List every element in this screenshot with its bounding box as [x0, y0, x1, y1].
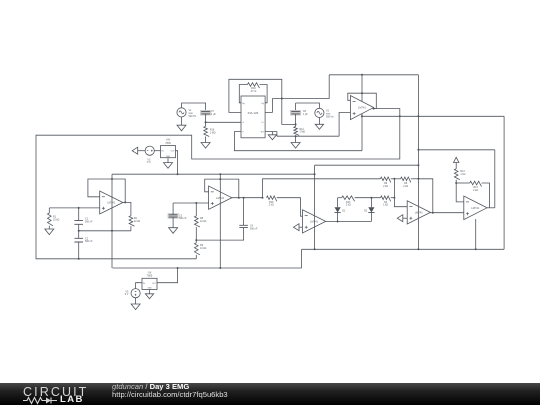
- junction U3 output: [373, 108, 375, 110]
- wire D2 top lead: [370, 198, 372, 208]
- junction line116-U3out drop: [399, 115, 401, 117]
- svg-text:500 nF: 500 nF: [85, 220, 93, 223]
- wire R2b right: [391, 197, 395, 199]
- wire R9b-R6 gap: [391, 178, 401, 180]
- wire R1 bottom: [48, 226, 50, 229]
- svg-text:500 nF: 500 nF: [85, 240, 93, 243]
- resistor R6 (2k): [401, 177, 411, 182]
- svg-text:1 MΩ: 1 MΩ: [210, 131, 216, 134]
- svg-text:7805: 7805: [147, 275, 153, 278]
- resistor R10 (47 Ohm) gain loop: [248, 83, 260, 88]
- svg-text:INA 126: INA 126: [248, 111, 259, 115]
- svg-text:10 kΩ: 10 kΩ: [200, 247, 207, 250]
- wire INA Ref pin stub: [265, 132, 277, 137]
- wire INA right mid pin up: [265, 99, 272, 113]
- junction D2 top: [370, 197, 372, 199]
- port arrow P1: [132, 147, 138, 154]
- svg-text:LM741: LM741: [107, 201, 115, 205]
- ground below X1: [164, 163, 173, 169]
- wire X1 GND down: [167, 158, 169, 163]
- resistor R2b (1k): [381, 196, 391, 201]
- junction C1 top: [78, 207, 80, 209]
- wire U5 feedback: [418, 179, 432, 213]
- junction rail-U6 Vminus: [475, 248, 477, 250]
- svg-text:2 kΩ: 2 kΩ: [473, 189, 478, 192]
- wire net y=98.5 to U3 rail: [272, 75, 329, 99]
- junction rail-U4 Vminus: [314, 248, 316, 250]
- wire R12 bottom: [295, 135, 297, 142]
- svg-text:Ref: Ref: [261, 132, 265, 134]
- svg-text:LM741: LM741: [358, 106, 366, 110]
- svg-text:10 kΩ: 10 kΩ: [200, 220, 207, 223]
- port arrow P2: [294, 224, 300, 231]
- junction U1 feedback crossing: [111, 178, 113, 180]
- port arrow P3: [397, 215, 403, 222]
- junction R6-x418: [417, 178, 419, 180]
- op-amp U3 LM741: [350, 96, 373, 120]
- wire R13a-D2 top: [355, 197, 381, 199]
- wire top rail y=74.8: [329, 74, 418, 76]
- wire V3 to X1 IN: [154, 150, 160, 152]
- capacitor C2 (500nF): [74, 238, 83, 242]
- wire C1 top: [78, 208, 80, 221]
- wire U6 Vminus stub: [475, 219, 477, 249]
- diode D2: [368, 207, 374, 212]
- svg-text:47 Ω: 47 Ω: [251, 89, 257, 93]
- wire R6 right: [411, 178, 419, 180]
- svg-text:500 nF: 500 nF: [250, 227, 258, 230]
- svg-text:Rg: Rg: [242, 103, 244, 105]
- wire R1 top: [48, 208, 50, 213]
- wire net W2 mid rail y=174.2: [112, 173, 315, 175]
- resistor R9b (2k) top row: [380, 177, 390, 182]
- ground below R12: [291, 143, 300, 149]
- op-amp U4 LM741: [303, 210, 326, 233]
- junction U2out-fb: [238, 197, 240, 199]
- wire R13b left lead: [456, 182, 470, 184]
- wire D1 top: [337, 198, 339, 208]
- wire rail y=165.2: [315, 164, 419, 166]
- junction C4-U2out: [243, 197, 245, 199]
- wire net W1 (opamp U3 output to left rail): [36, 109, 400, 259]
- junction U5out-fb: [432, 212, 434, 214]
- voltage source V5 9V: [131, 289, 140, 298]
- svg-text:2 kΩ: 2 kΩ: [403, 185, 408, 188]
- wire R9 bottom: [195, 255, 197, 259]
- svg-text:GND: GND: [166, 156, 171, 158]
- junction D1 bottom: [337, 221, 339, 223]
- junction U2 feedback crossing: [219, 178, 221, 180]
- wire U1 plus input: [49, 207, 99, 209]
- op-amp U5 LM741: [407, 201, 430, 224]
- ground below C3: [169, 228, 178, 234]
- wire R8 bottom: [195, 227, 197, 243]
- junction rail-x418: [417, 248, 419, 250]
- resistor R13b (2k): [470, 181, 482, 186]
- wire rail149 drop to U6 out: [494, 150, 496, 208]
- ground below R1: [45, 229, 54, 235]
- wire C3 top: [172, 203, 174, 215]
- wire R10 loop right: [260, 85, 268, 103]
- capacitor C8 (1uF): [290, 110, 301, 116]
- wire R16 bottom: [205, 137, 207, 143]
- wire V2 top to C8 top: [296, 103, 320, 108]
- instrumentation amp U7 INA126 box: [241, 96, 265, 138]
- svg-text:LM741: LM741: [415, 211, 423, 215]
- junction x362 line116: [361, 115, 363, 117]
- svg-text:1 μF: 1 μF: [303, 113, 308, 116]
- resistor R1 (22k): [48, 213, 53, 226]
- resistor R16b (2k): [267, 196, 277, 201]
- ground below X2: [145, 294, 153, 299]
- wire VCC stem: [455, 163, 457, 169]
- wire C8 bottom to R12: [295, 114, 297, 127]
- wire C7 bottom node: [205, 114, 207, 126]
- junction R2b-vert: [393, 197, 395, 199]
- svg-text:D2: D2: [364, 210, 368, 213]
- wire P2 to U4 plus: [299, 226, 303, 228]
- wire INA left guard: [229, 79, 296, 124]
- ground below INA Ref: [271, 132, 273, 135]
- wire mid node line y=230.8: [79, 230, 131, 232]
- voltage source V3 9V: [145, 146, 154, 155]
- svg-text:500 Hz: 500 Hz: [189, 115, 197, 118]
- op-amp U2 LM741: [209, 186, 232, 209]
- svg-text:9 V: 9 V: [125, 293, 129, 296]
- wire D1 bottom lead: [337, 213, 339, 222]
- wire U2 output: [231, 197, 263, 199]
- wire V5 to X2 IN: [136, 283, 142, 289]
- junction x418-rail149: [417, 149, 419, 151]
- junction W2-U2 stub: [219, 173, 221, 175]
- wire bottom rail step: [301, 249, 303, 268]
- wire R2 bottom: [130, 226, 132, 231]
- wire R8R9 to C4: [196, 228, 243, 241]
- resistor R9 (10k): [195, 243, 200, 255]
- voltage source V1 sine: [177, 108, 186, 117]
- svg-text:GND: GND: [147, 288, 152, 290]
- wire U5 supply vertical: [417, 75, 419, 250]
- resistor R8 (10k): [195, 216, 200, 227]
- wire P1 to V3: [138, 150, 145, 152]
- wire U6 output: [487, 207, 495, 209]
- svg-text:22 kΩ: 22 kΩ: [53, 218, 60, 221]
- wire U3 supply vertical x=362: [361, 75, 363, 151]
- wire R8 top: [195, 203, 197, 216]
- wire U1 supply vertical: [111, 174, 113, 268]
- wire X1 OUT to W2: [176, 151, 178, 175]
- wire net W3 (INA bottom to U3 supply): [234, 132, 362, 151]
- wire C1 bottom: [78, 224, 80, 231]
- ground below R16: [201, 143, 210, 149]
- svg-text:1 μF: 1 μF: [211, 113, 216, 116]
- wire V1 bottom: [181, 117, 183, 125]
- wire U2out riser to top row: [263, 179, 381, 198]
- junction U2 plus-R8: [195, 202, 197, 204]
- wire U4 supply vertical: [314, 165, 316, 249]
- junction C2-rail: [78, 258, 80, 260]
- supply arrow VCC: [454, 157, 459, 162]
- wire bottom-left ground rail y=258.8: [79, 258, 197, 260]
- svg-text:2 kΩ: 2 kΩ: [383, 185, 388, 188]
- regulator X1 7805 box: [161, 146, 176, 158]
- junction x418-rail165: [417, 164, 419, 166]
- junction U1 out-feedback: [124, 201, 126, 203]
- svg-text:1 kΩ: 1 kΩ: [460, 173, 465, 176]
- wire U1 output: [123, 202, 131, 215]
- wire R13b right to U6 out: [482, 183, 490, 208]
- wire D2 bottom lead: [370, 213, 372, 222]
- resistor R2 (22k) fb: [129, 216, 134, 226]
- wire V2 bottom: [318, 118, 320, 125]
- svg-text:22 kΩ: 22 kΩ: [134, 220, 141, 223]
- svg-text:500 Hz: 500 Hz: [326, 115, 334, 118]
- resistor R12 (1 MOhm): [294, 127, 299, 136]
- wire P3 to U5 plus: [403, 217, 407, 219]
- wire R12R13 to U6 minus: [456, 183, 464, 202]
- wire U1 feedback loop: [88, 179, 125, 202]
- junction x362 feedback: [361, 92, 363, 94]
- svg-text:1 MΩ: 1 MΩ: [299, 131, 305, 134]
- wire rail y=116.3 to right edge: [362, 115, 504, 117]
- resistor R13a (2k): [342, 196, 355, 201]
- junction y98.5 guard crossing: [281, 98, 283, 100]
- capacitor C7 (1uF): [200, 110, 211, 116]
- junction C1C2 node: [78, 230, 80, 232]
- wire bottom rail right y=249.3: [302, 248, 505, 250]
- junction Ref-R12 bottom: [295, 135, 297, 137]
- junction U2out-riser: [262, 197, 264, 199]
- wire bottom rail left y=268: [113, 267, 302, 269]
- junction rail-neg7805 stub: [177, 267, 179, 269]
- wire C7 node to INA Vin-: [206, 121, 241, 123]
- wire X2 GND: [149, 290, 151, 294]
- junction C7-R16-INA node: [205, 121, 207, 123]
- wire U2 plus input: [173, 202, 209, 204]
- wire C3 bottom: [172, 217, 174, 228]
- svg-text:1 kΩ: 1 kΩ: [383, 204, 388, 207]
- svg-text:2 kΩ: 2 kΩ: [346, 204, 351, 207]
- svg-text:9 V: 9 V: [147, 161, 151, 164]
- svg-text:Rg: Rg: [261, 103, 263, 105]
- wire R12b bottom: [455, 180, 457, 183]
- wire U2 feedback loop: [205, 179, 239, 198]
- capacitor C3 (500nF): [168, 213, 179, 219]
- wire R10 loop left: [239, 85, 247, 103]
- wire U5 output row: [430, 212, 463, 214]
- wire C2 top: [78, 231, 80, 239]
- junction R12R13 node: [455, 182, 457, 184]
- wire right edge loop: [503, 116, 505, 249]
- wire C2 bottom: [78, 242, 80, 259]
- wire R16b lead: [277, 198, 303, 217]
- resistor R16 (1 MOhm) input bias: [204, 126, 209, 136]
- wire U2 supply vertical: [219, 174, 221, 268]
- capacitor C1 (500nF): [74, 221, 83, 225]
- regulator X2 7805 box: [142, 278, 157, 289]
- wire C8 top net: [295, 103, 297, 112]
- svg-text:LM741: LM741: [471, 206, 479, 210]
- junction U1 mid node: [111, 230, 113, 232]
- ground below V1: [177, 125, 186, 131]
- wire rail y=149.8: [418, 149, 494, 151]
- ground below V2: [315, 124, 323, 129]
- capacitor C4 (500nF): [239, 225, 248, 227]
- wire V1 top to C7: [182, 103, 206, 112]
- diode D1: [335, 207, 341, 212]
- svg-text:D1: D1: [342, 210, 346, 213]
- junction W2-7805 stub: [177, 173, 179, 175]
- wire Ref net y=136.2: [277, 135, 339, 137]
- wire Ref riser to U3 plus: [339, 113, 350, 137]
- resistor R12b (1k): [454, 169, 459, 180]
- wire C4 top: [243, 198, 245, 226]
- junction R8R9 node: [195, 239, 197, 241]
- wire U3 feedback loop: [348, 93, 377, 108]
- svg-text:2 kΩ: 2 kΩ: [269, 204, 274, 207]
- op-amp U1 LM741: [100, 191, 123, 214]
- wire U4 output row: [326, 221, 372, 223]
- junction x362 top rail: [361, 74, 363, 76]
- junction R9R6 node: [393, 178, 395, 180]
- junction line116-x418: [417, 115, 419, 117]
- junction rail-U2 Vminus: [219, 267, 221, 269]
- wire V5 bottom: [135, 298, 137, 304]
- wire D1-R13a: [338, 197, 342, 199]
- ground below V5: [131, 304, 140, 310]
- voltage source V2 sine: [315, 108, 324, 117]
- wire R9R6 node down: [394, 179, 407, 207]
- op-amp U6 LM741: [464, 196, 487, 220]
- junction W2 end on U4 supply line: [314, 173, 316, 175]
- svg-text:500 nF: 500 nF: [179, 217, 187, 220]
- svg-text:7805: 7805: [165, 142, 171, 145]
- svg-text:V-: V-: [242, 122, 244, 124]
- junction guard-C8 node: [295, 123, 297, 125]
- wire X2 OUT to rail: [157, 268, 178, 283]
